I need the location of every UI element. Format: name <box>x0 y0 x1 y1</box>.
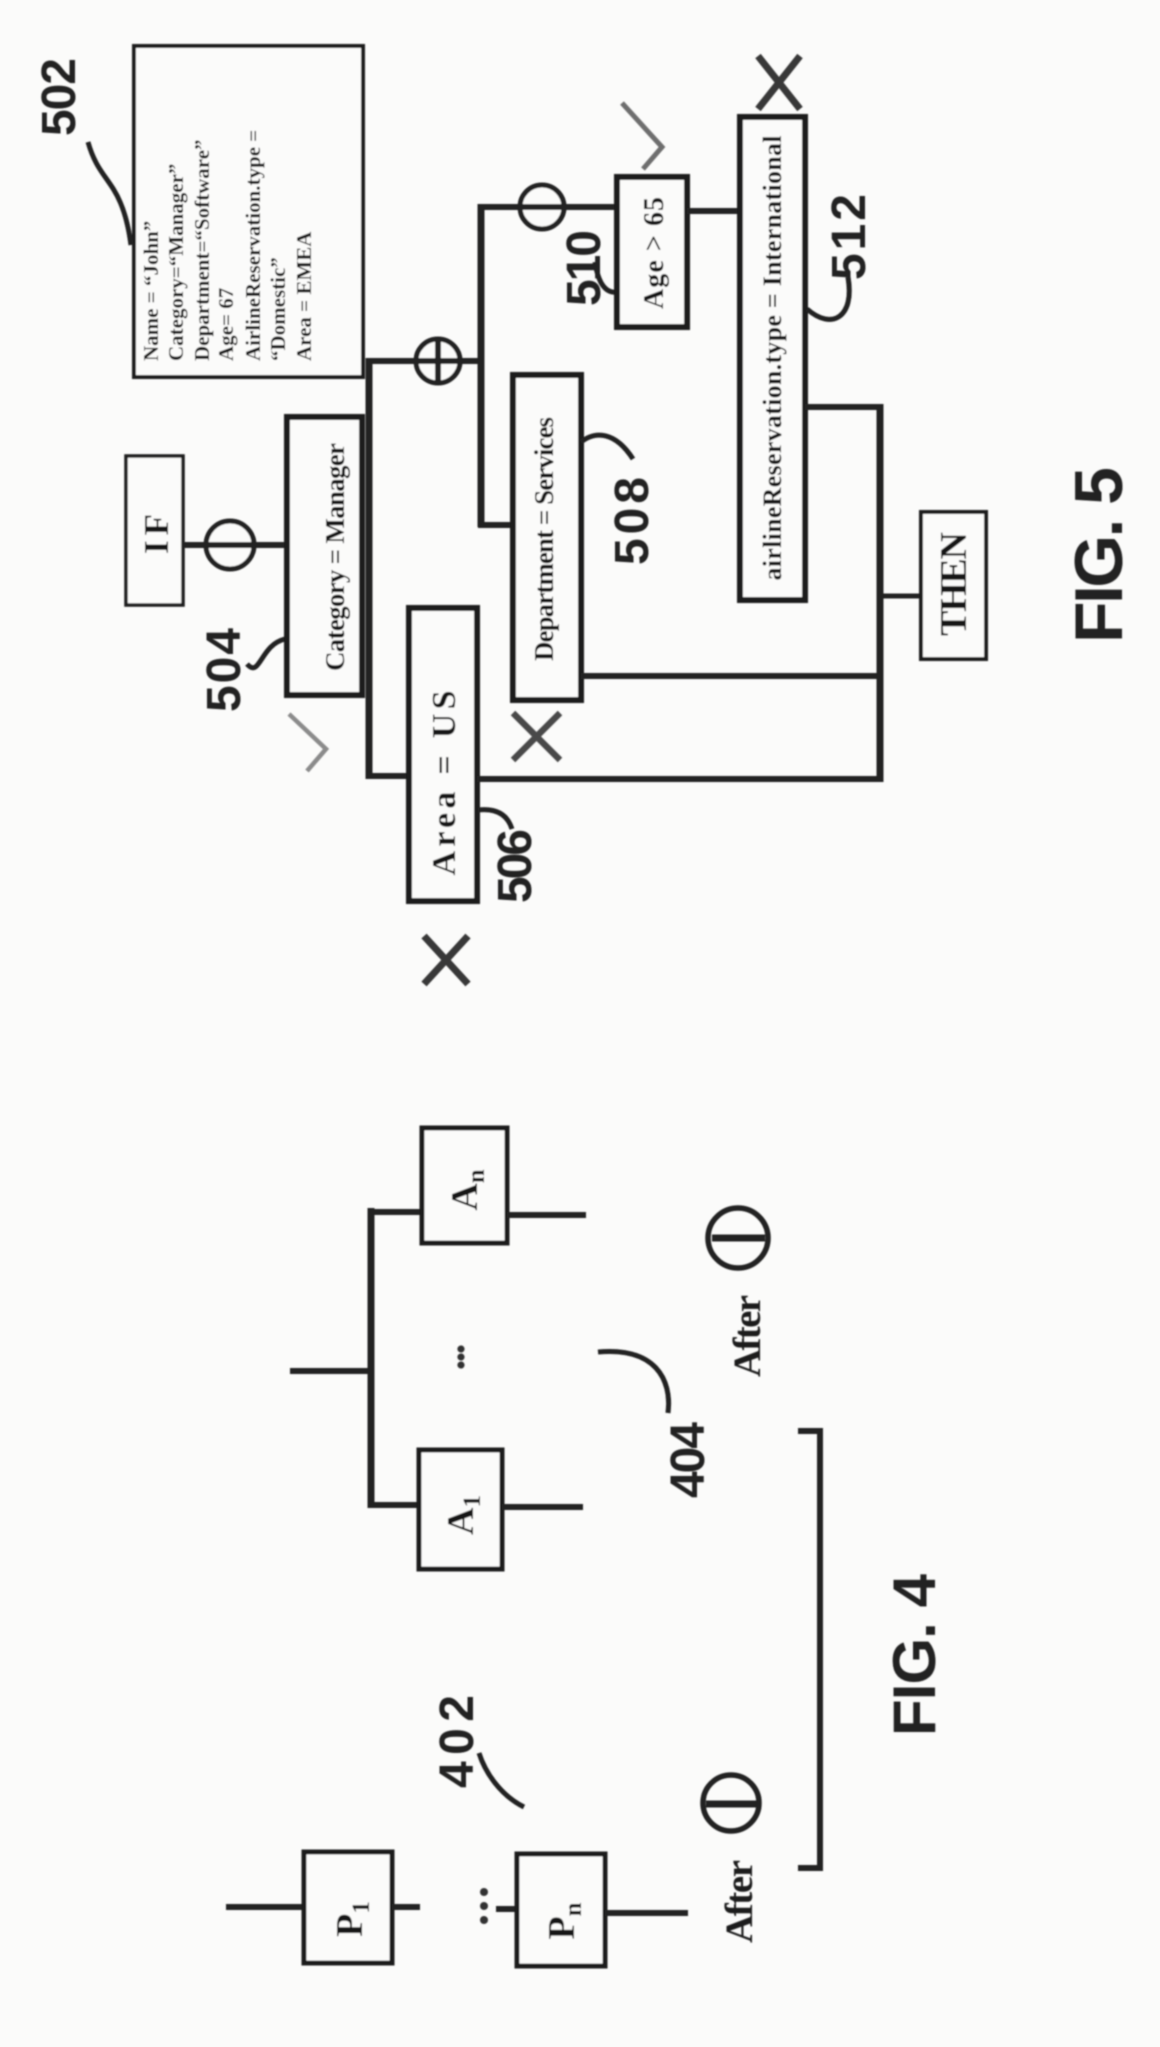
leader 512 <box>807 277 849 319</box>
IF box <box>126 456 183 605</box>
svg-text:After: After <box>718 1860 761 1943</box>
stub to A1 <box>368 1502 419 1508</box>
wire airline bottom to rail3 <box>805 404 882 410</box>
svg-text:504: 504 <box>198 628 251 712</box>
connector circle 3 <box>416 339 460 383</box>
leader 402 <box>479 1753 524 1807</box>
svg-text:FIG. 5: FIG. 5 <box>1061 467 1137 643</box>
box A1 <box>419 1450 502 1569</box>
svg-text:506: 506 <box>489 829 542 903</box>
wire Area bottom to rail3 <box>477 776 882 782</box>
wire above P1 <box>226 1904 304 1910</box>
wire below Pn <box>605 1910 688 1916</box>
trunk wire above A rail <box>290 1368 374 1374</box>
svg-text:Department = Services: Department = Services <box>529 417 559 661</box>
rail 2 <box>478 204 485 527</box>
svg-text:Name = “John”: Name = “John” <box>139 221 163 361</box>
A rail <box>368 1208 375 1508</box>
connector circle 2 <box>520 185 564 229</box>
svg-text:502: 502 <box>33 58 86 136</box>
box Area = US <box>409 608 477 901</box>
box Department = Services <box>513 375 581 700</box>
svg-text:THEN: THEN <box>933 532 975 636</box>
rail 3 <box>877 404 884 782</box>
check mark right of Age <box>622 103 662 169</box>
svg-text:Area = EMEA: Area = EMEA <box>292 231 316 361</box>
svg-text:404: 404 <box>662 1422 715 1498</box>
svg-text:After: After <box>726 1295 769 1377</box>
svg-text:Category=“Manager”: Category=“Manager” <box>164 164 188 361</box>
X mark left of Department <box>513 713 560 760</box>
box An <box>422 1128 507 1243</box>
wire below A1 <box>502 1504 583 1510</box>
box airlineReservation <box>740 117 805 600</box>
wire rail2 to Age via circle2 <box>478 204 617 210</box>
stub rail2 to Department <box>478 522 513 528</box>
svg-text:AirlineReservation.type =: AirlineReservation.type = <box>241 130 265 361</box>
wire Age to airline box <box>687 208 740 214</box>
leader 510 <box>595 262 618 292</box>
leader 404 <box>598 1351 669 1413</box>
leader 502 <box>88 142 131 245</box>
check mark left of Category <box>289 714 326 771</box>
wire above Pn <box>496 1906 517 1912</box>
box Age > 65 <box>617 177 687 327</box>
wire below P1 <box>392 1904 420 1910</box>
X mark left of Area <box>424 936 468 984</box>
wire rail1 to Area box <box>366 773 409 779</box>
legend circle left <box>703 1775 759 1831</box>
leader 508 <box>581 435 633 459</box>
dots between A boxes <box>457 1361 464 1368</box>
svg-text:510: 510 <box>558 230 611 306</box>
attribute box 502 <box>134 46 363 377</box>
svg-text:Age= 67: Age= 67 <box>214 288 238 361</box>
wire below An <box>507 1212 586 1218</box>
rail 1 under Category <box>366 358 373 779</box>
wire Department bottom to rail3 <box>581 673 882 679</box>
leader 504 <box>247 639 285 668</box>
X mark right of airline box <box>758 56 800 109</box>
svg-text:“Domestic”: “Domestic” <box>266 257 290 361</box>
legend circle right <box>708 1208 768 1268</box>
box Category = Manager <box>287 417 362 695</box>
stub rail3 to THEN <box>880 594 921 599</box>
svg-text:FIG. 4: FIG. 4 <box>881 1573 948 1736</box>
svg-text:508: 508 <box>606 477 659 565</box>
box Pn <box>517 1854 605 1966</box>
svg-text:airlineReservation.type = Inte: airlineReservation.type = International <box>758 136 787 581</box>
wire IF to Category <box>183 542 287 548</box>
stub to An <box>368 1209 422 1215</box>
svg-text:402: 402 <box>431 1695 484 1788</box>
dots between P boxes <box>480 1916 488 1924</box>
svg-text:IF: IF <box>137 514 176 554</box>
svg-text:Department=“Software”: Department=“Software” <box>190 139 214 361</box>
wire circle3 down <box>366 358 483 364</box>
bracket under FIG 4 <box>798 1431 820 1868</box>
leader 506 <box>478 810 512 829</box>
box P1 <box>304 1852 392 1963</box>
svg-text:Category = Manager: Category = Manager <box>320 443 350 671</box>
THEN box <box>921 512 986 659</box>
connector circle 1 <box>206 521 254 569</box>
svg-text:512: 512 <box>823 194 876 280</box>
svg-text:Age > 65: Age > 65 <box>639 197 670 309</box>
